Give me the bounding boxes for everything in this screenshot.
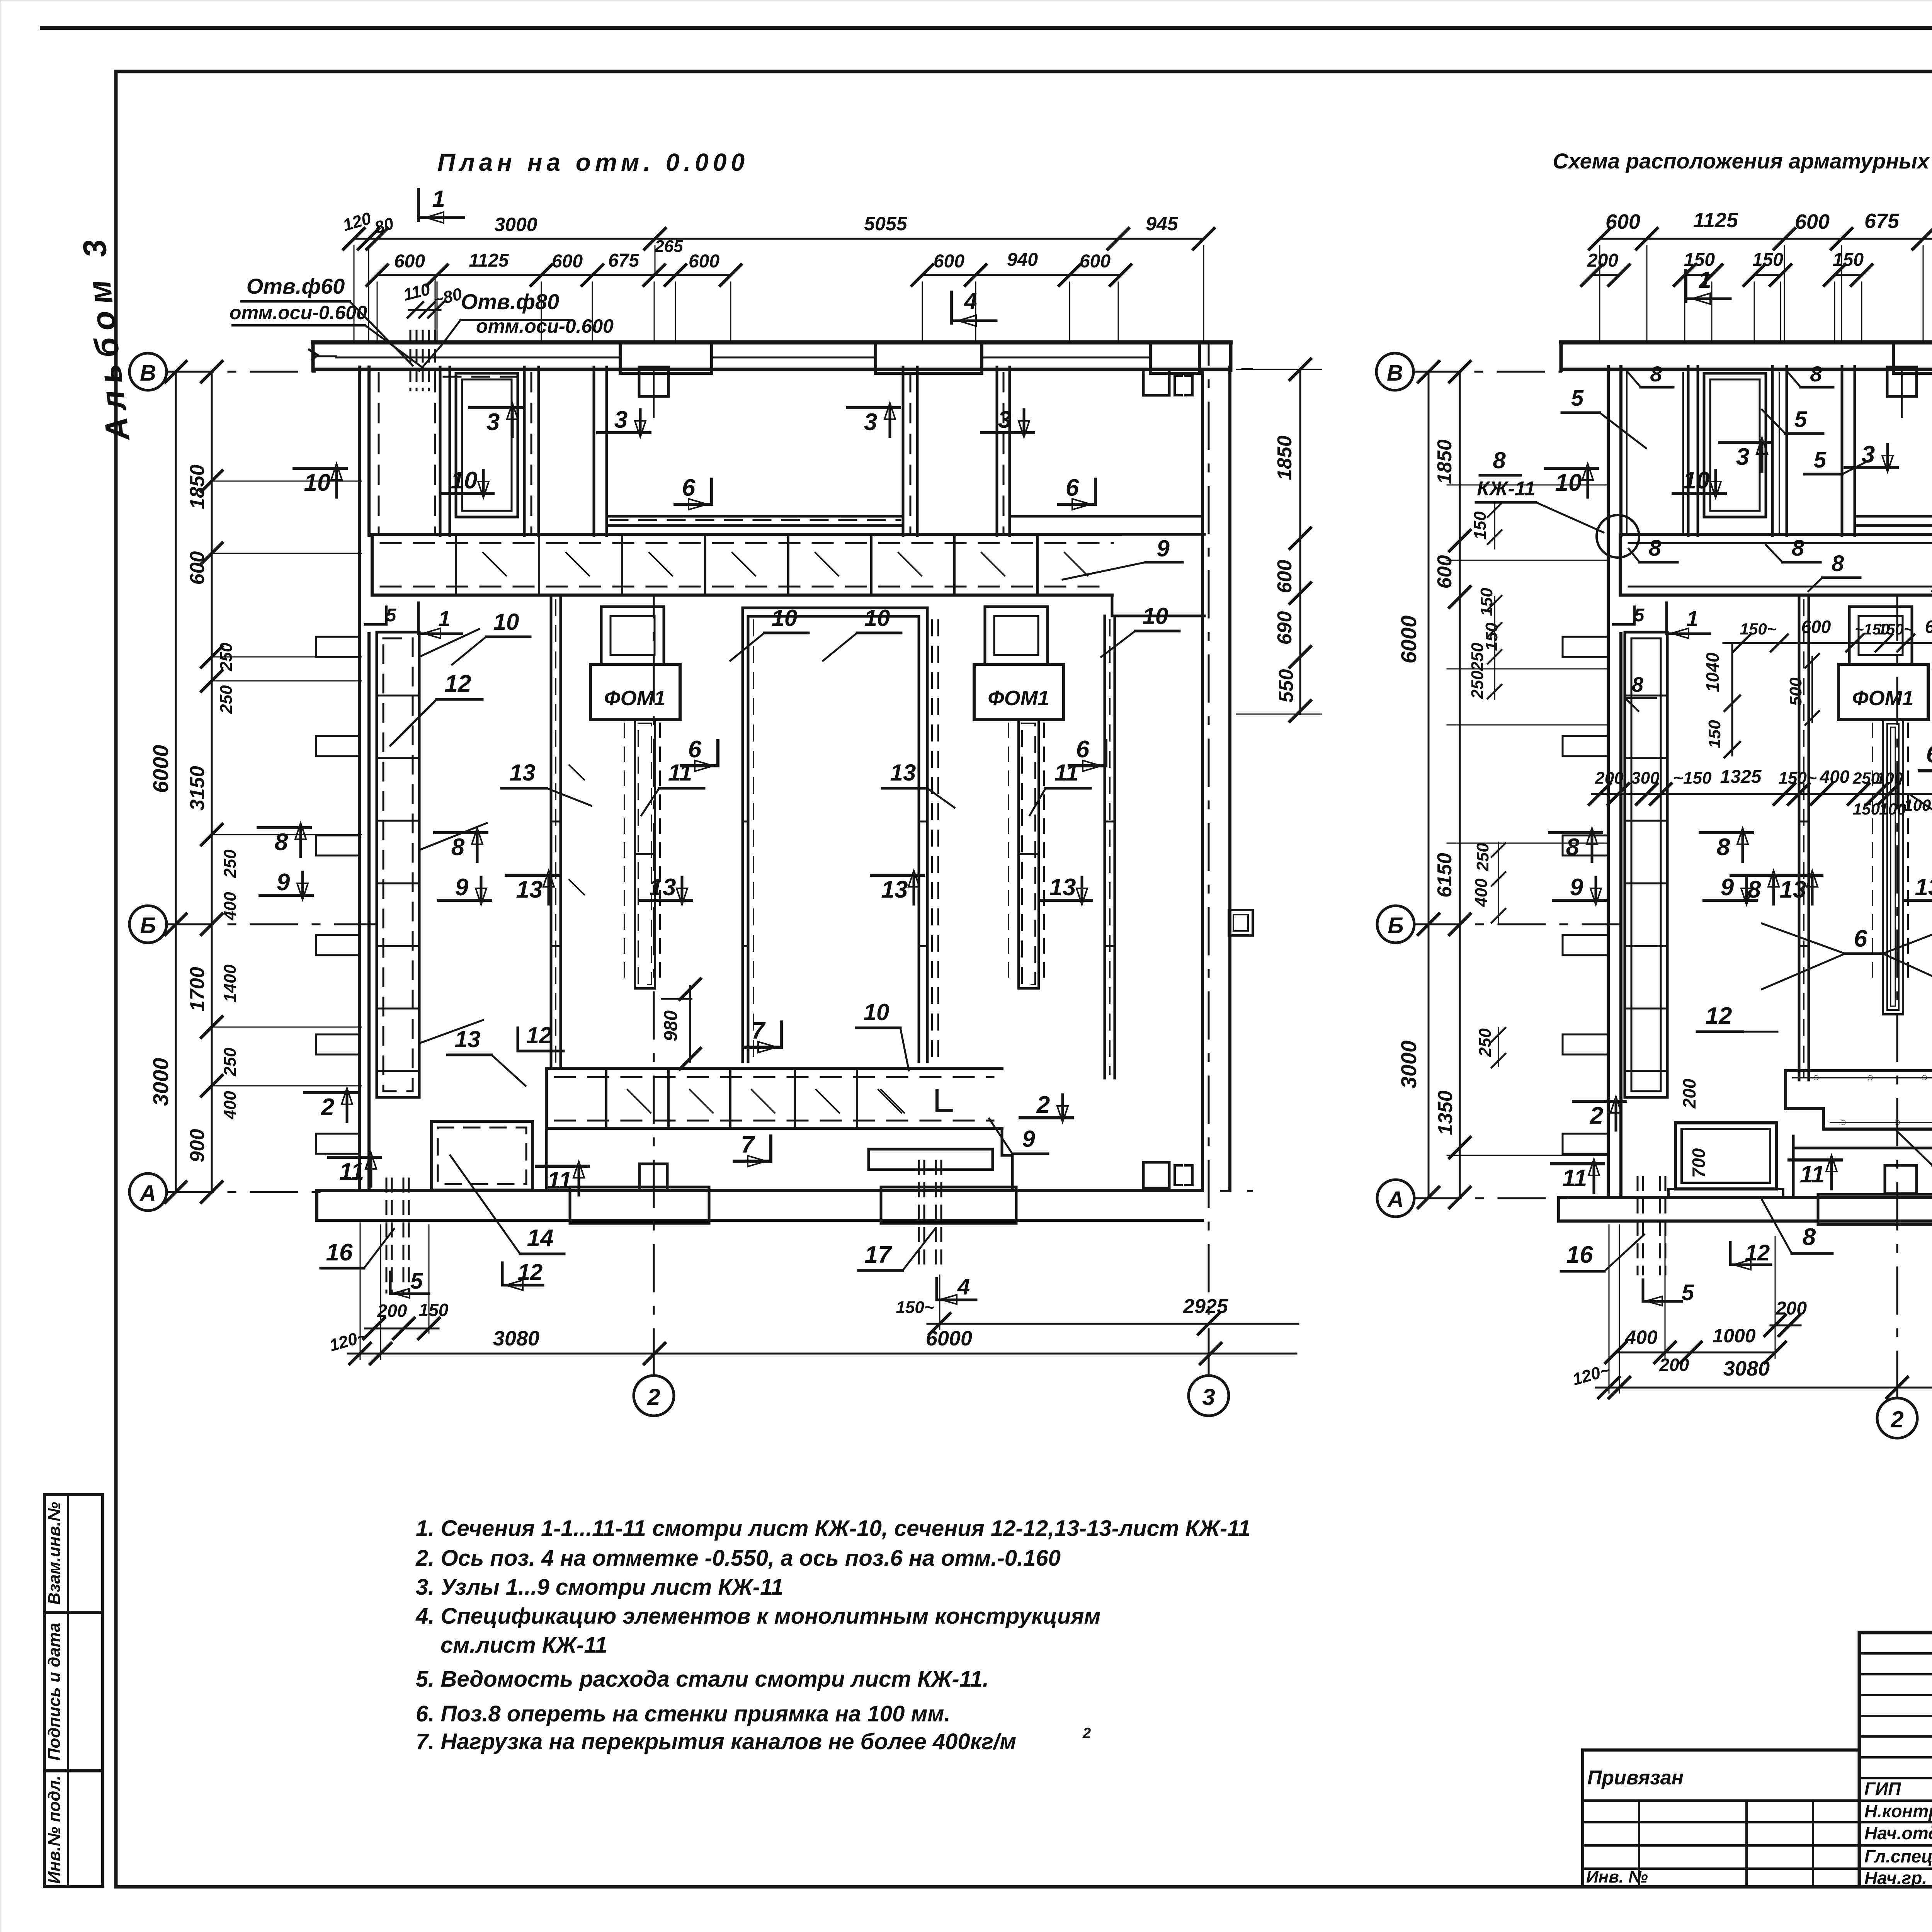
svg-text:5. Ведомость расхода стали см: 5. Ведомость расхода стали смотри лист К…: [416, 1667, 989, 1692]
svg-text:8: 8: [1748, 876, 1761, 903]
right plan step mark 5-1: [1613, 607, 1634, 624]
svg-text:4: 4: [964, 288, 977, 314]
svg-text:250: 250: [1473, 843, 1492, 872]
svg-text:13: 13: [510, 760, 536, 786]
svg-text:600: 600: [1925, 617, 1932, 637]
svg-text:12: 12: [445, 670, 471, 697]
svg-text:Нач.отд.: Нач.отд.: [1864, 1823, 1932, 1843]
left plan bottom slot: [869, 1149, 993, 1170]
left plan top dim row 1: [354, 238, 1204, 240]
svg-text:9: 9: [1156, 536, 1170, 561]
svg-text:1: 1: [432, 186, 445, 212]
svg-text:3: 3: [614, 406, 628, 433]
left plan left tall channel: [377, 632, 419, 1097]
svg-text:3: 3: [1202, 1384, 1215, 1410]
left plan axis line V: [167, 371, 315, 373]
svg-text:Н.контр.: Н.контр.: [1864, 1801, 1932, 1821]
svg-text:200: 200: [1595, 769, 1624, 787]
right plan band rebar dots: [1814, 1075, 1818, 1080]
right plan top wall: [1561, 340, 1932, 345]
svg-text:6: 6: [1854, 925, 1867, 952]
right plan axis circle A: [1377, 1180, 1414, 1217]
left plan label 2 left: [304, 1091, 357, 1094]
title block left part privyazan: [1583, 1748, 1859, 1752]
svg-text:отм.оси-0.600: отм.оси-0.600: [230, 302, 367, 323]
svg-text:250: 250: [217, 643, 236, 672]
svg-text:Инв.№ подл.: Инв.№ подл.: [45, 1776, 64, 1884]
left plan top wall pilaster 2: [876, 342, 982, 373]
right plan top wall small block: [1887, 367, 1917, 396]
svg-text:1. Сечения 1-1...11-11 смотри: 1. Сечения 1-1...11-11 смотри лист КЖ-10…: [416, 1516, 1250, 1541]
svg-text:12: 12: [526, 1022, 552, 1048]
left plan axis line A: [167, 1191, 321, 1193]
svg-text:300: 300: [1631, 769, 1660, 787]
left plan section mark 1 top: [417, 189, 420, 220]
right plan left tall channel: [1625, 632, 1667, 1097]
left plan channel band dividers: [455, 534, 457, 595]
svg-text:3. Узлы 1...9 смотри лист КЖ: 3. Узлы 1...9 смотри лист КЖ-11: [416, 1575, 783, 1600]
svg-text:400: 400: [1625, 1327, 1658, 1348]
svg-text:100: 100: [1876, 769, 1903, 787]
right plan wall A: [1798, 595, 1801, 1080]
left plan bottom marks 12 5 4: [502, 1263, 543, 1285]
left plan top strip partition 3: [593, 367, 595, 536]
right plan top strip partitions: [1687, 366, 1690, 536]
svg-text:9: 9: [1022, 1126, 1035, 1152]
left plan right wall: [1201, 369, 1204, 1190]
svg-text:5: 5: [1682, 1280, 1694, 1305]
svg-text:8: 8: [1810, 362, 1822, 386]
left plan bottom dims: [365, 1328, 439, 1330]
left plan pipes 17: [918, 1161, 920, 1271]
svg-text:600: 600: [1605, 210, 1640, 233]
svg-text:7. Нагрузка на перекрытия кан: 7. Нагрузка на перекрытия каналов не бол…: [416, 1729, 1016, 1754]
svg-text:900: 900: [186, 1129, 209, 1163]
svg-text:8: 8: [1717, 834, 1730, 861]
left plan channel side dashes: [624, 723, 625, 985]
svg-text:8: 8: [1632, 673, 1643, 696]
svg-text:6: 6: [1926, 741, 1932, 768]
svg-text:11: 11: [668, 760, 692, 786]
left plan bottom strip outline: [545, 1128, 548, 1190]
svg-text:см.лист КЖ-11: см.лист КЖ-11: [440, 1633, 607, 1658]
svg-text:1850: 1850: [1434, 439, 1456, 484]
svg-text:ФОМ1: ФОМ1: [988, 687, 1049, 710]
svg-text:8: 8: [1792, 536, 1804, 561]
left plan right room south wall: [1010, 515, 1202, 518]
svg-text:6000: 6000: [1396, 616, 1421, 664]
svg-text:10: 10: [1555, 469, 1582, 496]
svg-text:700: 700: [1689, 1148, 1709, 1178]
svg-text:8: 8: [1650, 362, 1662, 386]
svg-text:150: 150: [1833, 250, 1864, 270]
svg-text:6000: 6000: [148, 745, 173, 793]
right plan left wall: [1607, 366, 1610, 1197]
right plan KZh-11 callout circle left: [1597, 515, 1639, 558]
svg-text:2: 2: [647, 1384, 660, 1410]
left plan top wall pilaster 3: [1150, 342, 1199, 373]
svg-text:Подпись и дата: Подпись и дата: [45, 1623, 64, 1761]
left plan FOM1 unit 1 drop channel: [635, 719, 655, 988]
svg-text:1000: 1000: [1713, 1325, 1755, 1347]
left plan bottom-left room 14: [432, 1121, 532, 1190]
svg-text:150: 150: [1929, 717, 1932, 744]
left plan label 2 right: [1020, 1116, 1072, 1119]
svg-text:3000: 3000: [148, 1058, 173, 1106]
svg-text:5: 5: [1634, 605, 1645, 626]
svg-text:150~: 150~: [896, 1298, 934, 1317]
left plan left wall niches: [316, 637, 359, 657]
svg-text:265: 265: [654, 237, 683, 256]
svg-text:Альбом 3: Альбом 3: [75, 231, 137, 444]
right plan bottom extension lines: [1619, 1225, 1620, 1393]
left plan FOM1 unit 1 notch: [601, 607, 664, 664]
svg-text:250: 250: [221, 849, 240, 878]
left plan FOM1 unit 1 box: [590, 664, 680, 719]
svg-text:600: 600: [1801, 617, 1831, 637]
svg-text:ФОМ1: ФОМ1: [1852, 687, 1913, 710]
svg-text:Б: Б: [1388, 913, 1403, 938]
svg-text:3080: 3080: [493, 1327, 539, 1350]
left plan label 11 mid bottom: [536, 1165, 588, 1168]
left plan top wall small block: [639, 367, 668, 396]
svg-text:12: 12: [1706, 1003, 1732, 1029]
left plan middle room south wall: [607, 515, 903, 518]
svg-text:3080: 3080: [1723, 1357, 1770, 1380]
right plan bottom strip outline: [1792, 1136, 1795, 1197]
svg-text:10: 10: [451, 467, 478, 494]
svg-text:2925: 2925: [1183, 1295, 1228, 1318]
right plan label 11 marks: [1551, 1162, 1604, 1165]
svg-text:200: 200: [1659, 1355, 1689, 1375]
svg-text:600: 600: [1795, 210, 1830, 233]
left plan bottom axis 3 circle: [1189, 1376, 1229, 1416]
right plan top dim row 1: [1600, 238, 1932, 240]
svg-text:9: 9: [1570, 874, 1583, 901]
svg-text:13: 13: [516, 876, 543, 903]
svg-text:1350: 1350: [1434, 1090, 1457, 1135]
right plan axis circle B: [1377, 906, 1414, 943]
right plan top strip inner lines: [1626, 373, 1628, 533]
left plan bottom extension lines: [380, 1225, 381, 1359]
left plan bottom band L mark: [937, 1090, 952, 1111]
left plan wall A: [550, 595, 553, 1068]
svg-text:13: 13: [1915, 874, 1932, 901]
right plan label 2 marks: [1573, 1100, 1626, 1103]
left plan FOM1 unit 2 notch: [985, 607, 1048, 664]
svg-text:Схема расположения арматурны: Схема расположения арматурных и закладны…: [1553, 149, 1932, 173]
svg-text:Отв.ф80: Отв.ф80: [461, 289, 560, 314]
svg-text:3000: 3000: [494, 214, 537, 235]
svg-text:690: 690: [1274, 611, 1296, 645]
svg-text:4: 4: [957, 1274, 970, 1299]
left plan FOM1 unit 2 drop channel: [1019, 719, 1039, 988]
left plan top strip partition 2: [523, 367, 526, 536]
svg-text:Нач.гр.: Нач.гр.: [1864, 1868, 1927, 1888]
svg-text:120~: 120~: [1570, 1361, 1612, 1389]
left plan section marks 6 mid: [716, 741, 719, 766]
left plan right dim column: [1299, 369, 1301, 714]
svg-text:План на отм. 0.000: План на отм. 0.000: [437, 148, 749, 176]
left plan top extension lines: [377, 282, 378, 342]
svg-text:отм.оси-0.600: отм.оси-0.600: [476, 315, 614, 337]
svg-text:1040: 1040: [1702, 652, 1723, 692]
svg-text:675: 675: [608, 250, 639, 271]
svg-text:10: 10: [864, 999, 889, 1025]
left plan left extension lines: [212, 481, 361, 482]
svg-text:7: 7: [741, 1131, 755, 1158]
right plan left small dims: [1494, 504, 1495, 549]
svg-text:5: 5: [386, 605, 397, 626]
left plan label 11 left bottom: [328, 1156, 381, 1159]
svg-text:13: 13: [1780, 876, 1806, 903]
svg-text:8: 8: [1649, 536, 1662, 561]
svg-text:250: 250: [1468, 643, 1487, 672]
left plan top strip partition 1: [439, 367, 442, 536]
svg-text:600: 600: [186, 551, 209, 585]
right plan FOM1 unit 1: [1849, 607, 1912, 664]
svg-text:250: 250: [217, 685, 236, 714]
svg-text:3: 3: [486, 409, 500, 435]
svg-text:8: 8: [1493, 447, 1506, 473]
title block small grid: [1859, 1633, 1932, 1887]
svg-text:11: 11: [1800, 1161, 1825, 1188]
left plan top wall: [313, 340, 1231, 345]
svg-text:5: 5: [410, 1269, 423, 1294]
svg-text:6: 6: [682, 474, 696, 501]
left plan top strip partition 4: [902, 367, 905, 536]
svg-text:ГИП: ГИП: [1864, 1779, 1901, 1799]
svg-text:200: 200: [1587, 250, 1618, 271]
left plan left wall: [358, 367, 361, 1190]
left plan bottom-right corner bracket: [1143, 1162, 1169, 1188]
svg-text:6000: 6000: [926, 1327, 972, 1350]
svg-text:11: 11: [1562, 1165, 1587, 1192]
svg-text:6150: 6150: [1434, 853, 1456, 898]
svg-text:5: 5: [1571, 386, 1584, 411]
right plan bottom wall: [1559, 1196, 1932, 1199]
svg-text:16: 16: [1566, 1242, 1593, 1268]
right plan section marks inner: [1549, 831, 1602, 834]
left plan axis circle V: [129, 353, 167, 390]
svg-text:3: 3: [998, 406, 1011, 433]
svg-text:8: 8: [275, 829, 288, 855]
right plan left extension lines: [1447, 485, 1607, 486]
svg-text:8: 8: [1832, 551, 1844, 576]
svg-text:8: 8: [1566, 834, 1580, 861]
left plan section mark 4 top: [950, 292, 953, 323]
left plan left dim column: [175, 372, 177, 1192]
right plan main channel band: [1620, 533, 1932, 536]
svg-text:~80: ~80: [431, 284, 464, 310]
svg-text:16: 16: [326, 1239, 353, 1266]
left plan central pit: [742, 608, 744, 1062]
left plan section marks 8-9 inner: [435, 831, 487, 834]
svg-text:А: А: [1387, 1187, 1404, 1212]
svg-text:200: 200: [1776, 1298, 1807, 1319]
right plan FOM1 dim string: [1723, 642, 1932, 644]
svg-text:ФОМ1: ФОМ1: [604, 687, 665, 710]
svg-text:9: 9: [455, 874, 469, 901]
svg-text:3150: 3150: [186, 766, 209, 811]
right plan bottom axis 2 circle: [1877, 1398, 1917, 1438]
svg-text:11: 11: [1054, 760, 1078, 786]
right plan bottom wall block: [1885, 1165, 1917, 1194]
svg-text:1850: 1850: [1274, 435, 1296, 480]
left plan axis circle A: [129, 1173, 167, 1211]
svg-text:5: 5: [1794, 407, 1807, 432]
svg-text:1: 1: [438, 606, 450, 631]
svg-text:17: 17: [865, 1242, 892, 1268]
left plan label 7 bottom: [780, 1022, 783, 1047]
right plan section mark 1 top: [1684, 270, 1687, 301]
left plan section marks 8-9 outer: [258, 826, 310, 829]
svg-text:400: 400: [1820, 767, 1850, 787]
svg-text:10: 10: [1683, 467, 1710, 494]
right plan left dim column: [1428, 372, 1430, 1197]
svg-text:10: 10: [1143, 603, 1168, 629]
svg-text:940: 940: [1007, 250, 1038, 270]
svg-text:675: 675: [1864, 209, 1900, 233]
left plan wall B: [1104, 616, 1106, 1078]
svg-text:5055: 5055: [864, 213, 907, 235]
svg-text:8: 8: [1803, 1224, 1816, 1250]
left plan top strip partition 5: [996, 367, 998, 536]
right plan bottom dim line main: [1596, 1387, 1932, 1389]
svg-text:Инв. №: Инв. №: [1586, 1867, 1648, 1886]
svg-text:5: 5: [1814, 447, 1827, 473]
svg-text:Отв.ф60: Отв.ф60: [247, 274, 345, 298]
svg-text:600: 600: [552, 251, 583, 272]
svg-text:Б: Б: [140, 913, 156, 938]
svg-text:1: 1: [1698, 267, 1711, 293]
svg-text:Гл.спец.: Гл.спец.: [1864, 1846, 1932, 1866]
svg-text:400: 400: [221, 1091, 240, 1120]
left plan tall channel leaders: [419, 629, 479, 657]
svg-text:3: 3: [864, 409, 877, 435]
left plan bottom channel band: [546, 1067, 1002, 1070]
svg-text:980: 980: [661, 1010, 681, 1041]
right plan pipes 16: [1637, 1177, 1639, 1274]
svg-text:8: 8: [451, 834, 465, 861]
svg-text:600: 600: [1080, 251, 1111, 272]
left plan axis line B: [167, 923, 375, 925]
svg-text:~150: ~150: [1673, 769, 1712, 787]
svg-text:1125: 1125: [1693, 209, 1738, 232]
left stamp column: [44, 1495, 103, 1887]
svg-text:200: 200: [377, 1301, 407, 1321]
svg-text:150~: 150~: [1878, 621, 1913, 638]
right plan bottom-left room: [1675, 1123, 1776, 1189]
svg-text:4. Спецификацию элементов к м: 4. Спецификацию элементов к монолитным к…: [415, 1604, 1101, 1629]
right plan middle room south wall: [1855, 515, 1932, 518]
svg-text:В: В: [140, 361, 156, 386]
left plan channel band right step: [1112, 595, 1204, 616]
svg-text:1125: 1125: [469, 250, 509, 271]
svg-text:11: 11: [547, 1167, 572, 1194]
svg-text:250: 250: [221, 1048, 240, 1077]
svg-text:6: 6: [688, 736, 702, 763]
svg-text:2: 2: [321, 1094, 334, 1121]
svg-text:10: 10: [864, 605, 890, 631]
svg-text:1325: 1325: [1720, 767, 1762, 787]
left plan channel step mark 5-1: [365, 607, 386, 624]
svg-text:10: 10: [772, 605, 798, 631]
right plan top wall pilasters: [1893, 342, 1932, 373]
svg-text:150: 150: [419, 1300, 449, 1320]
svg-text:13: 13: [650, 874, 676, 901]
svg-text:Взам.инв.№: Взам.инв.№: [45, 1502, 64, 1605]
svg-text:600: 600: [934, 251, 964, 272]
left plan axis circle B: [129, 906, 167, 943]
svg-text:Привязан: Привязан: [1587, 1767, 1684, 1789]
svg-text:150: 150: [1752, 250, 1783, 270]
left plan top wall pilaster 1: [620, 342, 712, 373]
left plan right wall niche: [1229, 910, 1253, 935]
svg-text:550: 550: [1929, 666, 1932, 694]
left plan bottom wall pilaster 2: [881, 1187, 1016, 1223]
svg-text:13: 13: [890, 760, 916, 786]
svg-text:10: 10: [304, 469, 331, 496]
sheet top edge line: [42, 26, 1932, 30]
svg-text:1: 1: [1686, 606, 1698, 631]
right plan top extension lines: [1599, 246, 1600, 340]
svg-text:В: В: [1387, 361, 1403, 386]
svg-text:150~: 150~: [1740, 620, 1777, 638]
svg-text:11: 11: [339, 1158, 364, 1185]
svg-text:2: 2: [1036, 1092, 1050, 1118]
left plan hole pipes top: [410, 331, 412, 390]
right plan bottom channel band: [1786, 1069, 1932, 1072]
left plan top dim row 2: [377, 274, 731, 276]
svg-text:600: 600: [394, 251, 425, 272]
left plan label 7 strip: [769, 1136, 772, 1161]
left plan top strip room 1: [456, 373, 518, 517]
left plan top strip dashes: [378, 373, 380, 533]
left plan top-right corner bracket: [1143, 369, 1169, 395]
svg-text:2. Ось поз. 4 на отметке -0.5: 2. Ось поз. 4 на отметке -0.550, а ось п…: [415, 1546, 1061, 1571]
right plan left wall niches: [1563, 637, 1608, 657]
svg-text:9: 9: [1721, 874, 1734, 901]
svg-text:1850: 1850: [186, 464, 209, 509]
svg-text:550: 550: [1275, 669, 1298, 703]
svg-text:А: А: [139, 1181, 156, 1206]
right plan axis circle V: [1376, 353, 1413, 390]
svg-text:7: 7: [752, 1017, 766, 1044]
svg-text:6. Поз.8 опереть на стенки пр: 6. Поз.8 опереть на стенки приямка на 10…: [416, 1701, 950, 1726]
svg-text:150: 150: [1705, 720, 1724, 748]
svg-text:6: 6: [1066, 474, 1079, 501]
left plan section marks top strip: [470, 406, 522, 409]
svg-text:КЖ-11: КЖ-11: [1477, 478, 1535, 500]
svg-text:150: 150: [1477, 588, 1496, 616]
left plan FOM1 unit 2 box: [974, 664, 1064, 719]
left plan section marks 13 row: [639, 899, 692, 902]
svg-text:600: 600: [1274, 560, 1296, 594]
svg-text:400: 400: [1472, 878, 1491, 907]
svg-text:150: 150: [1471, 511, 1490, 540]
svg-text:1400: 1400: [221, 964, 240, 1002]
svg-text:13: 13: [1049, 874, 1076, 901]
svg-text:6: 6: [1076, 736, 1090, 763]
svg-text:2: 2: [1082, 1725, 1091, 1742]
svg-text:200: 200: [1679, 1078, 1699, 1109]
svg-text:13: 13: [881, 876, 908, 903]
svg-text:120: 120: [341, 209, 374, 235]
svg-text:9: 9: [277, 869, 290, 896]
svg-text:14: 14: [527, 1225, 554, 1252]
svg-text:12: 12: [1745, 1240, 1770, 1265]
